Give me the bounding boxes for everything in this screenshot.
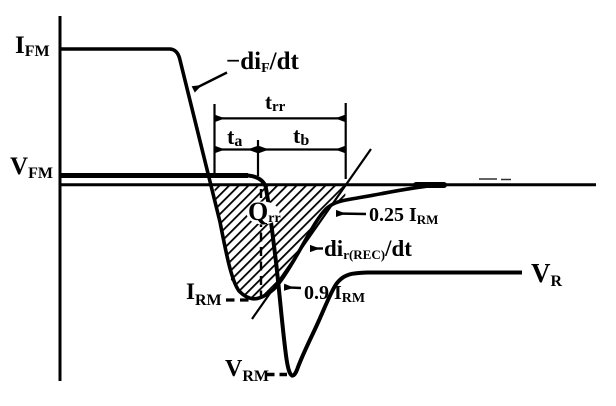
svg-text:ta: ta: [227, 124, 242, 150]
svg-text:IFM: IFM: [15, 32, 50, 60]
svg-text:IRM: IRM: [186, 279, 222, 309]
svg-text:−diF/dt: −diF/dt: [226, 48, 300, 76]
svg-text:0.25 IRM: 0.25 IRM: [369, 204, 438, 227]
svg-text:VFM: VFM: [10, 153, 53, 182]
svg-text:trr: trr: [265, 90, 286, 115]
svg-text:0.9 IRM: 0.9 IRM: [304, 282, 365, 306]
svg-text:dir(REC)/dt: dir(REC)/dt: [324, 236, 412, 262]
svg-text:VRM: VRM: [225, 356, 269, 385]
svg-text:VR: VR: [531, 258, 563, 290]
svg-text:tb: tb: [293, 123, 309, 149]
